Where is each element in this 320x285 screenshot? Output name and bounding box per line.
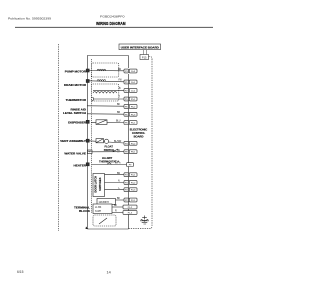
svg-text:PUMP MOTOR: PUMP MOTOR [65, 70, 87, 74]
svg-text:HEATER: HEATER [74, 163, 87, 167]
svg-text:WT A: WT A [115, 162, 121, 165]
svg-text:BK: BK [117, 104, 121, 106]
svg-text:BU: BU [117, 150, 121, 152]
svg-text:BN: BN [118, 69, 122, 71]
svg-text:FGBD2438PF0: FGBD2438PF0 [100, 14, 125, 18]
svg-text:LEVEL SWITCH: LEVEL SWITCH [63, 111, 87, 115]
svg-text:L1 BK: L1 BK [95, 207, 102, 209]
svg-text:VENT ASSEMBLY: VENT ASSEMBLY [60, 139, 87, 143]
svg-text:DISPENSER: DISPENSER [68, 121, 87, 125]
svg-text:N WH: N WH [95, 211, 101, 213]
svg-text:P15: P15 [142, 55, 147, 59]
svg-text:BLU: BLU [116, 121, 121, 123]
svg-text:12345678: 12345678 [99, 202, 110, 204]
svg-text:THERMISTOR: THERMISTOR [66, 98, 87, 102]
svg-text:USER INTERFACE BOARD: USER INTERFACE BOARD [121, 45, 159, 49]
svg-text:SWITCHES: SWITCHES [99, 177, 102, 191]
svg-text:CONTROL: CONTROL [132, 131, 146, 135]
svg-text:ELECTRONIC: ELECTRONIC [130, 128, 148, 132]
svg-text:Publication No. 5995502399: Publication No. 5995502399 [8, 16, 51, 20]
svg-text:BK: BK [114, 205, 118, 207]
svg-text:WATER VALVE: WATER VALVE [64, 152, 86, 156]
svg-text:BK: BK [117, 198, 121, 200]
svg-text:BR: BR [117, 112, 121, 114]
svg-text:SWITCH: SWITCH [104, 148, 114, 152]
svg-text:BL/WR: BL/WR [114, 141, 122, 143]
svg-text:14: 14 [107, 270, 111, 274]
svg-text:FLOAT: FLOAT [105, 144, 114, 148]
svg-text:BN: BN [117, 173, 121, 175]
svg-text:6/15: 6/15 [17, 270, 24, 274]
svg-text:HI-LIMIT: HI-LIMIT [102, 156, 113, 160]
svg-text:BLOCK: BLOCK [79, 209, 91, 213]
svg-text:WIRING DIAGRAM: WIRING DIAGRAM [96, 21, 126, 26]
svg-text:BOARD: BOARD [134, 135, 144, 139]
svg-text:DRAIN MOTOR: DRAIN MOTOR [64, 83, 87, 87]
svg-text:DOOR LATCH: DOOR LATCH [95, 176, 98, 193]
